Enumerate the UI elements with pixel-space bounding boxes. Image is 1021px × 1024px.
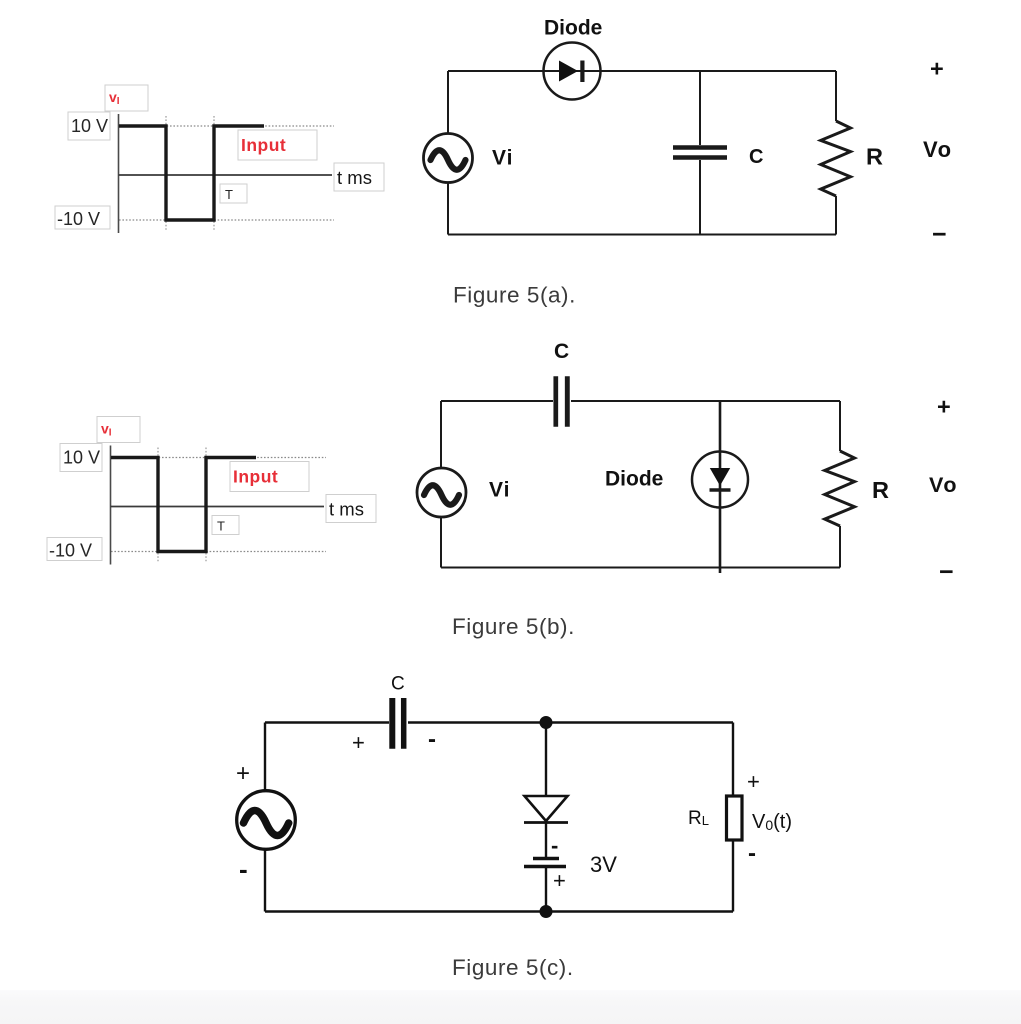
svg-text:Figure 5(a).: Figure 5(a). — [453, 283, 576, 308]
svg-text:R: R — [872, 477, 889, 503]
svg-text:+: + — [930, 56, 944, 82]
svg-text:10 V: 10 V — [63, 448, 100, 468]
svg-text:T: T — [225, 187, 233, 202]
svg-text:Vo: Vo — [929, 473, 958, 497]
svg-text:+: + — [236, 760, 250, 787]
svg-text:-: - — [239, 854, 248, 884]
svg-text:C: C — [749, 146, 763, 168]
svg-text:+: + — [937, 394, 951, 420]
svg-text:Diode: Diode — [605, 468, 663, 491]
svg-text:+: + — [352, 730, 365, 755]
svg-text:-: - — [551, 833, 558, 858]
svg-text:-10 V: -10 V — [49, 541, 92, 561]
svg-text:t ms: t ms — [337, 167, 372, 188]
svg-text:Vi: Vi — [489, 479, 510, 502]
svg-text:R: R — [866, 144, 883, 170]
svg-text:+: + — [553, 868, 566, 893]
svg-text:3V: 3V — [590, 852, 617, 877]
svg-text:C: C — [554, 340, 569, 363]
svg-text:Input: Input — [241, 135, 286, 155]
svg-text:−: − — [939, 558, 954, 586]
svg-text:Figure 5(b).: Figure 5(b). — [452, 614, 575, 639]
svg-text:−: − — [932, 221, 947, 249]
svg-text:-: - — [428, 726, 436, 753]
svg-text:C: C — [391, 674, 405, 695]
svg-text:Vi: Vi — [492, 147, 513, 170]
svg-text:-: - — [748, 840, 756, 867]
svg-text:t ms: t ms — [329, 499, 364, 520]
svg-text:T: T — [217, 519, 225, 534]
svg-text:Input: Input — [233, 467, 278, 487]
svg-text:+: + — [747, 769, 760, 794]
svg-text:10 V: 10 V — [71, 116, 108, 136]
svg-text:Diode: Diode — [544, 17, 602, 40]
svg-text:Figure 5(c).: Figure 5(c). — [452, 955, 574, 980]
svg-text:-10 V: -10 V — [57, 209, 100, 229]
svg-text:Vo: Vo — [923, 137, 953, 162]
